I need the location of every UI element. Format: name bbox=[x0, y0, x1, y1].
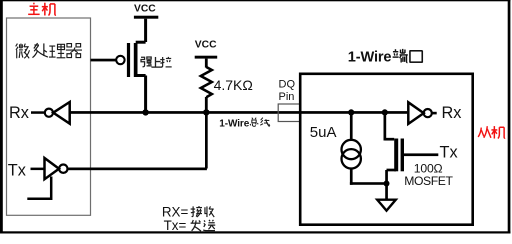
microprocessor box bbox=[7, 18, 91, 215]
outer frame right border bbox=[508, 0, 511, 234]
svg-text:1-Wire: 1-Wire bbox=[219, 119, 249, 130]
buffer U3 Rx (slave) triangle bbox=[408, 102, 423, 124]
svg-text:Tx: Tx bbox=[8, 161, 26, 179]
inverter U1 Rx triangle (points left) bbox=[53, 102, 69, 124]
VCC power bar (strong pullup) bbox=[134, 16, 158, 19]
DQ pin box bbox=[278, 104, 300, 122]
label 微处理器 (microprocessor) bbox=[16, 43, 82, 58]
outer frame left border bbox=[0, 0, 3, 234]
VCC power bar (pullup resistor) bbox=[195, 56, 218, 59]
wire 1-wire bus (host side) bbox=[70, 111, 300, 114]
svg-text:Tx=: Tx= bbox=[164, 218, 187, 233]
inverter U1 Rx input bubble bbox=[45, 109, 53, 117]
wire gate of Q1 to microprocessor bbox=[91, 59, 117, 62]
svg-text:Rx: Rx bbox=[9, 104, 29, 122]
junction dot at ground rail bbox=[384, 181, 390, 187]
wire Rx label to inverter bbox=[31, 111, 45, 114]
svg-text:Rx: Rx bbox=[442, 104, 462, 122]
wire Tx buffer enable hook bbox=[27, 177, 51, 199]
current source I1 (two circles) bbox=[342, 140, 361, 159]
wire current source to ground rail bbox=[350, 168, 353, 184]
junction dot at current source bbox=[348, 109, 354, 115]
wire ground rail to ground symbol bbox=[385, 184, 388, 200]
svg-text:MOSFET: MOSFET bbox=[404, 174, 453, 188]
junction dot at Q1 source bbox=[142, 109, 148, 115]
wire Tx vertical to bus bbox=[205, 113, 208, 169]
wire VCC to PMOS drain bbox=[144, 19, 147, 42]
label 主机 (red, top-left) bbox=[28, 3, 56, 16]
wire Tx label to buffer bbox=[31, 168, 44, 171]
wire resistor to bus bbox=[205, 97, 208, 112]
wire Tx line to bus vertical bbox=[68, 168, 207, 171]
label 强上拉 (strong pullup) bbox=[141, 57, 172, 67]
label 从机 (red, slave) bbox=[478, 126, 505, 138]
svg-text:VCC: VCC bbox=[134, 4, 156, 15]
wire VCC to resistor bbox=[205, 59, 208, 68]
svg-text:RX=: RX= bbox=[162, 204, 189, 219]
wire ground rail horizontal bbox=[350, 182, 388, 185]
1-wire port box bbox=[300, 74, 473, 225]
wire bus to current source bbox=[350, 113, 353, 141]
svg-text:VCC: VCC bbox=[195, 40, 217, 51]
svg-text:Pin: Pin bbox=[279, 91, 295, 103]
wire bubble to Rx label bbox=[432, 112, 437, 115]
resistor R1 4.7K zigzag bbox=[201, 67, 212, 97]
outer frame top border bbox=[0, 0, 510, 1]
outer frame bottom border bbox=[0, 231, 510, 233]
buffer U2 output bubble bbox=[59, 165, 67, 173]
buffer U3 output bubble bbox=[424, 109, 432, 117]
transistor Q1 strong pull-up PMOS bbox=[116, 42, 147, 112]
svg-text:5uA: 5uA bbox=[310, 124, 337, 141]
svg-text:1-Wire: 1-Wire bbox=[348, 49, 392, 65]
junction dot at resistor/Tx bbox=[203, 109, 209, 115]
svg-text:Tx: Tx bbox=[440, 144, 458, 162]
ground symbol bbox=[377, 200, 396, 211]
wire 1-wire bus (slave side, inside port) bbox=[301, 111, 407, 114]
svg-text:DQ: DQ bbox=[279, 79, 296, 91]
transistor Q2 mosfet drain wire bbox=[384, 113, 387, 141]
junction dot at mosfet drain bbox=[382, 109, 388, 115]
buffer U2 Tx triangle (points right) bbox=[45, 158, 60, 179]
wire gate of Q2 to Tx bbox=[404, 153, 438, 156]
transistor Q2 mosfet bbox=[385, 139, 404, 185]
svg-text:4.7KΩ: 4.7KΩ bbox=[214, 77, 253, 93]
